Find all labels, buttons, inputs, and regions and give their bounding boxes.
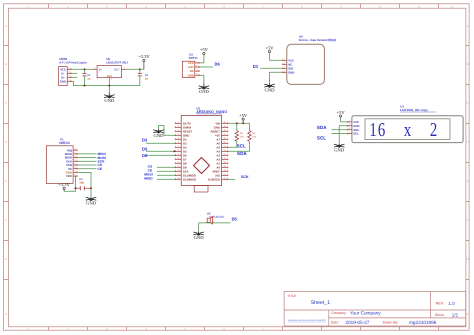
- title block Date field: [331, 320, 437, 325]
- svg-text:F: F: [5, 218, 7, 222]
- svg-text:D13/SCK: D13/SCK: [208, 177, 220, 181]
- svg-text:Your Company: Your Company: [350, 310, 381, 315]
- svg-text:1.0: 1.0: [448, 301, 455, 306]
- svg-text:1u: 1u: [145, 76, 149, 80]
- svg-text:mg23101996: mg23101996: [409, 320, 437, 325]
- wire NRF24 CSN to node CS: [77, 164, 97, 166]
- wire USB GND to ground rail: [71, 81, 140, 85]
- svg-text:TITLE:: TITLE:: [288, 294, 297, 298]
- title block Company field: [331, 310, 381, 315]
- wire node D5 to Arduino: [146, 150, 176, 152]
- ground under speaker: [193, 232, 204, 241]
- svg-text:GND: GND: [188, 73, 194, 77]
- svg-text:Date:: Date:: [331, 320, 339, 324]
- wire NRF24 SCK to node: [77, 160, 97, 162]
- resistor R3 10k: [235, 131, 244, 142]
- wire R4 bottom to Arduino A4 SDA: [228, 141, 250, 151]
- regulator U6 LM1117: [93, 57, 129, 81]
- ground under NRF24: [86, 197, 97, 205]
- pin 2 (OUT) of U6: [122, 68, 127, 70]
- svg-text:SCK: SCK: [241, 175, 249, 179]
- svg-text:Grove - Gas Sensor(MQ2): Grove - Gas Sensor(MQ2): [299, 38, 337, 42]
- junction ADJ/GND rail: [108, 85, 110, 87]
- wire speaker to node D5: [199, 222, 231, 224]
- svg-text:12: 12: [450, 4, 454, 8]
- ground under DHT11: [199, 84, 210, 95]
- wire DHT11 DAT to node D6: [199, 66, 213, 68]
- title block Sheet field: [435, 313, 459, 318]
- wire R3 bottom to Arduino A5 SCL: [228, 141, 237, 147]
- svg-text:E: E: [5, 179, 7, 183]
- wire Arduino GND hook: [159, 126, 176, 136]
- wire LCD SDA to node: [332, 129, 348, 131]
- svg-text:SDA: SDA: [237, 151, 247, 156]
- resistor R4 10k: [248, 131, 257, 142]
- svg-text:B: B: [5, 62, 7, 66]
- svg-text:C: C: [5, 101, 7, 105]
- svg-text:D: D: [5, 140, 7, 144]
- capacitor C3: [76, 178, 92, 190]
- svg-text:GND: GND: [199, 89, 210, 94]
- junction C1/GND rail: [84, 85, 86, 87]
- wire U6 ADJ to ground rail: [108, 80, 110, 92]
- svg-text:10u: 10u: [79, 180, 84, 184]
- title block frame: [284, 292, 466, 327]
- title block TITLE field: [288, 294, 331, 306]
- ground under LCD: [334, 144, 345, 152]
- svg-text:E: E: [467, 179, 469, 183]
- wire USB D- stub: [71, 72, 77, 74]
- power +3.3V at regulator output: [143, 62, 145, 70]
- wire Arduino D13/SCK to node SCK: [228, 178, 236, 180]
- svg-text:D12/MISO: D12/MISO: [183, 177, 197, 181]
- wire U6 OUT to +3.3V node: [126, 68, 144, 70]
- junction C1/VCC: [84, 68, 86, 70]
- capacitor C1: [83, 69, 92, 85]
- svg-text:GND: GND: [288, 70, 294, 74]
- svg-text:Company:: Company:: [331, 311, 347, 315]
- svg-text:H: H: [5, 312, 7, 316]
- svg-text:GND: GND: [265, 87, 276, 92]
- sensor U3 DHT11: [182, 53, 199, 78]
- wire node CS to Arduino D9: [157, 166, 176, 168]
- svg-text:OUT: OUT: [114, 67, 120, 71]
- svg-text:1/1: 1/1: [452, 313, 459, 318]
- svg-text:SDA: SDA: [317, 125, 327, 130]
- wire DHT11 VCC to +5V: [199, 55, 204, 63]
- svg-text:1u: 1u: [87, 76, 91, 80]
- svg-text:11: 11: [418, 4, 421, 8]
- svg-text:GND: GND: [60, 79, 66, 83]
- svg-text:A-F LCPVinyl1.5pitar: A-F LCPVinyl1.5pitar: [59, 60, 88, 64]
- svg-text:D6: D6: [142, 153, 148, 158]
- svg-text:A: A: [467, 24, 469, 28]
- svg-text:D3: D3: [253, 64, 259, 69]
- pin 1 (ADJ) of U6: [108, 78, 110, 81]
- wire R4 top stem: [248, 123, 250, 130]
- svg-text:C: C: [466, 101, 468, 105]
- junction +5V stem: [242, 122, 244, 124]
- svg-text:10: 10: [378, 4, 382, 8]
- svg-text:SCL: SCL: [317, 135, 326, 140]
- junction C3/VCC net: [75, 187, 77, 189]
- wire LCD VCC to +5V: [341, 117, 348, 122]
- wire node D3 to Arduino: [146, 142, 176, 144]
- svg-text:+3.3V: +3.3V: [58, 182, 70, 187]
- svg-text:F: F: [467, 218, 469, 222]
- svg-text:MISO: MISO: [144, 177, 153, 181]
- wire node MOSI to Arduino D11: [157, 174, 176, 176]
- svg-text:Sheet_1: Sheet_1: [311, 300, 330, 306]
- svg-text:NRF24: NRF24: [59, 141, 70, 145]
- wire gas sensor VCC to +5V: [270, 53, 283, 61]
- svg-text:G: G: [466, 257, 468, 261]
- svg-text:G: G: [5, 257, 7, 261]
- svg-text:A: A: [5, 24, 7, 28]
- svg-text:+5V: +5V: [337, 110, 346, 115]
- sensor U4 Grove Gas Sensor MQ2: [282, 35, 336, 85]
- power +5V at pullup resistors: [239, 113, 248, 120]
- svg-text:REV:: REV:: [436, 302, 444, 306]
- svg-text:DHT11: DHT11: [189, 56, 198, 60]
- power +3.3V at NRF24: [63, 190, 65, 192]
- border row tick marks: [4, 46, 470, 280]
- wire gas sensor SIG to node D3: [260, 67, 282, 69]
- svg-text:+5V: +5V: [265, 45, 274, 50]
- wire NRF24 MOSI to node: [77, 157, 97, 159]
- junction C3/GND net: [90, 187, 92, 189]
- wire NRF24 CE to node: [77, 168, 97, 170]
- wire DHT11 GND down: [199, 75, 204, 83]
- wire USB D+ stub: [71, 76, 77, 78]
- junction C2/+3.3V net: [139, 68, 141, 70]
- power +5V at DHT11: [200, 47, 209, 54]
- svg-text:Sheet:: Sheet:: [435, 313, 445, 317]
- wire Arduino VIN to pullup rail: [228, 122, 250, 124]
- svg-text:IN: IN: [99, 67, 102, 71]
- svg-text:GND: GND: [104, 98, 115, 103]
- svg-text:D5: D5: [142, 146, 148, 151]
- svg-text:CE: CE: [98, 167, 103, 171]
- svg-text:LM1117IOT-ADJ: LM1117IOT-ADJ: [106, 60, 128, 64]
- wire LCD SCL to node: [332, 133, 348, 135]
- junction R3/+5V rail: [236, 122, 238, 124]
- svg-text:+5V: +5V: [200, 47, 209, 52]
- junction on D5 wire: [173, 150, 175, 152]
- svg-text:SCL: SCL: [237, 144, 246, 149]
- power +5V at pullups: [242, 120, 244, 123]
- wire NRF24 MISO to node: [77, 153, 97, 155]
- svg-text:D5: D5: [232, 216, 238, 221]
- svg-text:easyeda.com/account/user/mg231: easyeda.com/account/user/mg2310: [288, 319, 327, 322]
- Arduino usb tab: [194, 186, 208, 193]
- power +3.3V regulator output: [138, 54, 150, 61]
- svg-text:D: D: [466, 140, 468, 144]
- power +5V at LCD: [337, 110, 346, 117]
- svg-text:+3.3V: +3.3V: [138, 54, 150, 59]
- ground at Arduino GND pin: [153, 129, 164, 138]
- title block REV field: [436, 301, 455, 306]
- wire VCC from USB1 to regulator IN: [71, 68, 93, 70]
- module P1 NRF24: [46, 138, 77, 184]
- svg-text:D6: D6: [215, 61, 221, 66]
- svg-text:VCC: VCC: [66, 174, 72, 178]
- wire gas sensor GND down: [270, 72, 283, 83]
- svg-text:SCL: SCL: [353, 132, 359, 136]
- svg-text:D3: D3: [142, 138, 148, 143]
- wire R3 top stem: [236, 123, 238, 130]
- svg-text:GND: GND: [334, 147, 345, 152]
- svg-text:LCD1602_I2C copy: LCD1602_I2C copy: [400, 108, 428, 112]
- wire NRF24 GND down: [77, 172, 91, 197]
- pin 3 (IN) of U6: [93, 68, 98, 70]
- svg-text:GND: GND: [86, 201, 97, 206]
- power +5V at gas sensor: [265, 45, 274, 52]
- wire node D6 to Arduino: [146, 154, 176, 156]
- svg-text:2019-05-27: 2019-05-27: [345, 320, 369, 325]
- microcontroller U2 ARDUINO_NANO: [175, 106, 228, 192]
- capacitor C2: [138, 69, 149, 85]
- svg-text:GND: GND: [194, 235, 205, 240]
- connector USB1: [59, 57, 88, 86]
- wire NRF24 VCC to +3.3V: [65, 176, 77, 191]
- svg-text:H: H: [466, 312, 468, 316]
- svg-text:ADJ: ADJ: [107, 75, 113, 78]
- ground under gas sensor: [264, 83, 275, 92]
- svg-text:B: B: [467, 62, 469, 66]
- wire node CE to Arduino D10: [157, 170, 176, 172]
- display U1 LCD1602 I2C: [347, 104, 463, 142]
- svg-text:GND: GND: [154, 133, 165, 138]
- ground under U6: [104, 92, 115, 103]
- wire LCD GND down: [339, 126, 347, 144]
- Arduino diamond logo: [194, 158, 210, 174]
- svg-text:+5V: +5V: [239, 113, 248, 118]
- power +3.3V at NRF24: [58, 182, 70, 189]
- svg-text:Drawn By:: Drawn By:: [383, 320, 399, 324]
- wire speaker to ground: [198, 223, 200, 232]
- speaker U5: [206, 211, 225, 224]
- wire node MISO to Arduino D12: [157, 178, 176, 180]
- svg-text:ARDUINO_NANO: ARDUINO_NANO: [196, 110, 227, 114]
